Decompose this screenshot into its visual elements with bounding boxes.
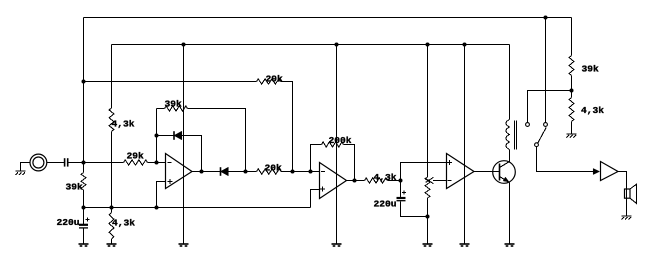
resistor R11 4,3k right [569, 98, 574, 122]
wire top rail right end down through 39k [571, 18, 573, 56]
svg-text:4,3k: 4,3k [374, 172, 397, 183]
relay contact circle right [544, 123, 548, 127]
wire C2 to ground [83, 229, 85, 244]
relay switch lever [538, 127, 547, 143]
wire wiper to U3 minus [433, 180, 447, 182]
wire rail to C2 [83, 208, 85, 224]
relay contact circle left [526, 123, 530, 127]
wire U2 output line [347, 180, 365, 182]
svg-text:39k: 39k [165, 99, 183, 110]
relay coil K1 [506, 120, 510, 150]
wire x=111.5 to bias rail [111, 132, 113, 208]
wire below 39k to bias rail [83, 190, 85, 208]
input jack J1 inner circle [33, 157, 44, 168]
resistor R7 29k on third rail [257, 79, 281, 84]
ground x=183.5 [179, 244, 189, 246]
node dot U1 output x=201.5 [200, 170, 204, 174]
resistor R2 39k vertical left [81, 173, 86, 191]
wire rail to R4 and R4 to ground [111, 208, 113, 213]
op-amp U2 [320, 163, 347, 199]
svg-text:20k: 20k [265, 163, 283, 174]
resistor R10 39k right [569, 56, 574, 76]
op-amp U3 [447, 154, 475, 189]
wire feedback left vertical x=155.5 [156, 109, 158, 163]
wire U4 to speaker [618, 172, 627, 217]
node dot second rail x=427.5 [426, 43, 430, 47]
wire third rail [84, 81, 257, 83]
Q1 emitter [500, 177, 510, 183]
node dot bias rail x=111.5 [110, 206, 114, 210]
wire top rail dot down to right contact [545, 18, 547, 123]
Q1 emitter arrow [503, 177, 509, 182]
svg-text:4,3k: 4,3k [112, 218, 135, 229]
amplifier U4 [601, 162, 619, 181]
U3 plus sign [447, 160, 452, 165]
op-amp U1 [166, 154, 193, 189]
node dot feedback x=245.5 [244, 170, 248, 174]
diode D2 bar [220, 167, 222, 176]
wire R1 to op-amp U1 minus [148, 162, 166, 164]
wire C1 to node A [68, 162, 123, 164]
node dot diode branch x=155.5 [155, 134, 159, 138]
capacitor C2 plates [79, 224, 88, 226]
capacitor C3 plates [397, 197, 406, 199]
wire vertical through U2 to ground [336, 45, 338, 245]
wire bias rail [84, 207, 311, 209]
Q1 base bar [499, 164, 501, 181]
node dot top rail x=545.5 [544, 16, 548, 20]
node dot input x=83.5 [82, 161, 86, 165]
wire U2 plus to bias rail [311, 190, 320, 208]
node dot second rail x=464.5 [463, 43, 467, 47]
U1 plus sign [168, 179, 173, 184]
node dot second rail x=336.5 [335, 43, 339, 47]
resistor R8 200k [322, 142, 344, 147]
node dot U2 output x=354.5 [353, 179, 357, 183]
wire U1 output line [192, 171, 257, 173]
wire node C to R11 and R11 to ground [571, 91, 573, 98]
node dot divider right x=571.5 [570, 89, 574, 93]
node dot U2 minus x=310.5 [309, 170, 313, 174]
wire jack to C1 [47, 162, 64, 164]
svg-text:29k: 29k [127, 151, 145, 162]
capacitor C1 plates [65, 158, 68, 166]
resistor R1 29k input [124, 160, 148, 165]
wire U3 output to Q1 base [474, 171, 500, 173]
node dot third rail x=83.5 [82, 80, 86, 84]
svg-text:220u: 220u [57, 217, 80, 228]
input jack J1 outer circle [30, 154, 47, 171]
wire pot vertical from second rail [427, 45, 429, 178]
ground x=464.5 [460, 244, 470, 246]
wire U1 plus to bias rail [157, 182, 166, 208]
capacitor C2 220u plus sign [85, 218, 89, 222]
wire node B down to C3 [400, 181, 402, 198]
diode D2 triangle [221, 167, 229, 176]
diode D1 bar [173, 131, 175, 140]
resistor R3 4,3k upper [109, 108, 114, 132]
arrow into amp U4 [593, 169, 599, 175]
node dot x=292.5 [291, 170, 295, 174]
resistor R6 20k [257, 169, 282, 174]
U3 minus sign [447, 180, 451, 182]
relay contact circle common [535, 143, 539, 147]
wire vertical through U1 from second rail to ground [183, 45, 185, 245]
node dot pot bottom x=427.5 [426, 215, 430, 219]
node dot bias rail x=157.5 [155, 206, 159, 210]
wire C3 bottom to pot bottom [401, 201, 428, 216]
speaker LS1 cone [630, 184, 637, 203]
wire second rail right end down to relay coil [509, 45, 511, 120]
ground emitter [505, 244, 515, 246]
ground x=336.5 [332, 244, 342, 246]
wire pot bottom to ground [427, 198, 429, 244]
ground chassis speaker [622, 216, 632, 220]
node dot bias rail x=83.5 [82, 206, 86, 210]
wire 39k to node C [571, 76, 573, 91]
svg-text:39k: 39k [66, 182, 84, 193]
U2 minus sign [321, 171, 325, 173]
svg-text:39k: 39k [582, 64, 600, 75]
wire emitter to ground [509, 183, 511, 245]
capacitor C3 220u plus sign [402, 191, 406, 195]
svg-text:220u: 220u [374, 199, 397, 210]
svg-text:4,3k: 4,3k [112, 119, 135, 130]
speaker LS1 rect [625, 189, 631, 198]
ground pot [423, 244, 433, 246]
Q1 collector [500, 150, 510, 168]
node dot U1 minus x=155.5 [155, 161, 159, 165]
wire diode branch y=135.5 [157, 136, 202, 172]
ground R4 [107, 244, 117, 246]
wire vertical x=111.5 from second rail [111, 45, 113, 109]
wire vertical through U3 to ground [464, 45, 466, 245]
ground chassis R11 [567, 134, 577, 138]
wire common contact down and right to amp [537, 147, 600, 172]
wire node B up to U3 plus [401, 163, 447, 181]
svg-text:4,3k: 4,3k [581, 105, 604, 116]
wire 20k to U2 minus [281, 171, 320, 173]
wire input ground to jack [21, 163, 31, 172]
U2 plus sign [320, 187, 325, 192]
wire second rail [112, 44, 510, 46]
ground C2 [79, 244, 89, 246]
resistor R5 39k feedback [165, 106, 188, 111]
wire feedback top y=108.5 left segment [157, 108, 165, 110]
relay core lines [515, 121, 517, 150]
resistor R9 4,3k [365, 178, 388, 183]
U1 minus sign [167, 162, 171, 164]
wire third rail right end to vertical [281, 82, 293, 172]
wire left vertical x=83.5 top [83, 18, 85, 173]
wire node C to left contact [528, 91, 572, 123]
wire 200k right to U2 output [344, 145, 355, 181]
wire feedback top right segment [188, 109, 246, 172]
resistor R4 4,3k lower [109, 213, 114, 240]
wire top rail V+ [84, 17, 572, 19]
svg-text:29k: 29k [266, 74, 284, 85]
node dot second rail x=183.5 [182, 43, 186, 47]
transistor Q1 circle [493, 161, 516, 184]
potentiometer RP1 [425, 177, 430, 198]
node dot node B x=400.5 [399, 179, 403, 183]
wiper arrow of RP1 [426, 177, 434, 183]
ground input chassis [16, 171, 26, 175]
diode D1 triangle [174, 131, 182, 140]
wire U2 feedback vertical left [311, 145, 322, 172]
wire R9 to node B [388, 180, 401, 182]
